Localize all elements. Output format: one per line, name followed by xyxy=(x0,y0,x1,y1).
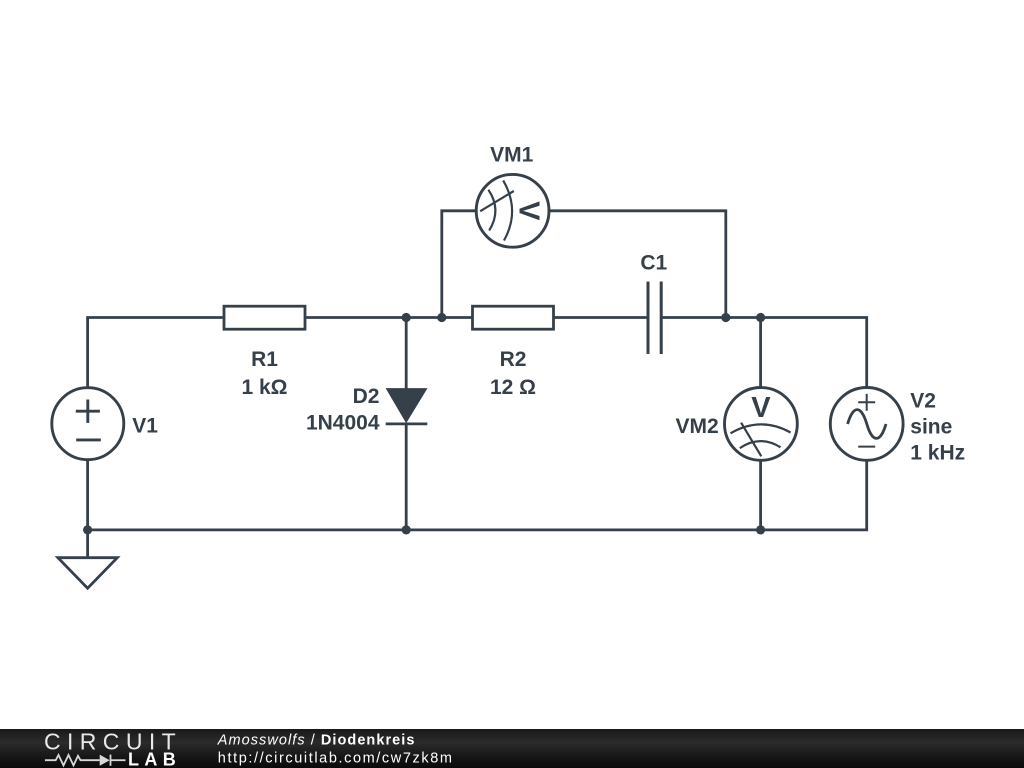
svg-text:Amosswolfs / Diodenkreis: Amosswolfs / Diodenkreis xyxy=(217,733,416,749)
resistor R2 xyxy=(473,306,554,329)
svg-text:V2: V2 xyxy=(910,390,936,413)
junction VM2 bottom tap xyxy=(756,525,765,534)
wire VM1 loop right xyxy=(549,211,726,318)
svg-text:http://circuitlab.com/cw7zk8m: http://circuitlab.com/cw7zk8m xyxy=(218,751,454,767)
voltmeter VM2 xyxy=(725,388,798,461)
svg-text:VM2: VM2 xyxy=(676,415,719,438)
wire VM1 loop left xyxy=(442,211,476,318)
svg-text:C1: C1 xyxy=(640,252,667,275)
junction ground node xyxy=(83,525,92,534)
resistor R1 xyxy=(224,306,305,329)
svg-text:LAB: LAB xyxy=(128,750,181,768)
svg-text:V: V xyxy=(513,201,545,221)
svg-text:sine: sine xyxy=(910,416,952,439)
svg-text:D2: D2 xyxy=(353,385,380,408)
ground xyxy=(58,558,117,589)
wire R1 right to C1 left plate xyxy=(306,316,648,319)
diode D2 xyxy=(386,389,428,424)
svg-text:VM1: VM1 xyxy=(490,143,534,166)
wire V1 top to R1 left xyxy=(88,318,223,388)
junction VM1 right tap xyxy=(721,313,730,322)
svg-text:V1: V1 xyxy=(132,415,158,438)
wire VM2 branch bottom xyxy=(759,460,762,530)
wire C1 right plate to V2 corner xyxy=(661,318,867,388)
wire diode branch top xyxy=(405,318,408,390)
junction diode bottom node xyxy=(402,525,411,534)
svg-text:V: V xyxy=(751,392,771,424)
wire bottom rail xyxy=(88,460,867,530)
svg-text:12 Ω: 12 Ω xyxy=(490,376,536,399)
capacitor C1 xyxy=(648,282,661,355)
source V1 xyxy=(52,388,124,460)
junction VM2 top tap xyxy=(756,313,765,322)
voltmeter VM1 xyxy=(476,174,549,247)
source V2 xyxy=(830,388,903,461)
svg-text:R1: R1 xyxy=(251,348,278,371)
svg-text:1 kHz: 1 kHz xyxy=(910,442,965,465)
wire diode branch bottom xyxy=(405,424,408,530)
svg-text:1N4004: 1N4004 xyxy=(306,412,380,435)
svg-text:1 kΩ: 1 kΩ xyxy=(241,376,287,399)
wire ground stem xyxy=(86,530,89,558)
junction VM1 left tap xyxy=(437,313,446,322)
svg-text:R2: R2 xyxy=(500,348,527,371)
junction diode top node xyxy=(402,313,411,322)
wire VM2 branch top xyxy=(759,318,762,388)
wire V1 bottom xyxy=(86,460,89,530)
logo resistor-diode glyph xyxy=(45,755,126,766)
